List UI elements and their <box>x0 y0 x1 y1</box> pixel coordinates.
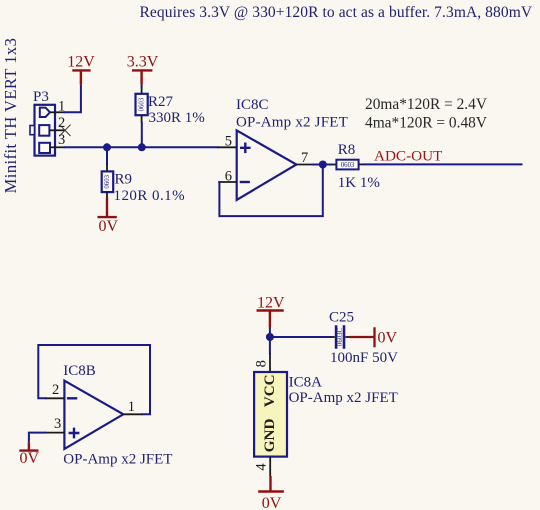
svg-text:Requires 3.3V @ 330+120R to ac: Requires 3.3V @ 330+120R to act as a buf… <box>140 4 533 21</box>
resistor R8 value 1K 1% <box>338 175 380 191</box>
svg-text:ADC-OUT: ADC-OUT <box>374 148 443 165</box>
op-amp IC8C pin 7 lead <box>296 164 313 166</box>
op-amp IC8A pin 8 lead <box>269 353 271 372</box>
power port 0V under R9 <box>98 198 119 236</box>
capacitor C25 designator <box>329 310 354 326</box>
svg-text:0V: 0V <box>262 495 282 510</box>
svg-text:IC8B: IC8B <box>63 363 96 379</box>
junction at C25 tap <box>266 333 274 341</box>
svg-text:OP-Amp x2 JFET: OP-Amp x2 JFET <box>289 390 398 406</box>
wire net to R9 <box>106 147 108 165</box>
op-amp IC8A pin 4 lead <box>269 457 271 476</box>
resistor R9 value 120R 0.1% <box>114 188 186 204</box>
resistor R9 body <box>102 171 114 192</box>
power port 0V below IC8A <box>258 476 284 510</box>
op-amp IC8B plus input mark <box>69 428 80 439</box>
op-amp IC8B pin 1 lead <box>123 413 142 415</box>
svg-text:VCC: VCC <box>261 374 278 407</box>
resistor R9 top lead <box>106 164 108 172</box>
resistor R27 value 330R 1% <box>149 110 205 126</box>
wire 3.3V to R27 <box>141 85 143 88</box>
svg-text:OP-Amp x2 JFET: OP-Amp x2 JFET <box>63 452 172 468</box>
power port 3.3V <box>127 53 159 84</box>
wire R27 to net <box>141 122 143 148</box>
svg-text:0603: 0603 <box>138 97 145 111</box>
svg-text:330R 1%: 330R 1% <box>149 110 205 126</box>
svg-text:0603C: 0603C <box>337 327 344 346</box>
svg-text:2: 2 <box>58 115 65 131</box>
op-amp IC8C pin 6 lead <box>218 181 237 183</box>
wire junction to C25 <box>270 336 331 338</box>
op-amp IC8C type OP-Amp x2 JFET <box>236 114 348 130</box>
pin number 1 IC8B <box>128 399 135 415</box>
pin number 3 IC8B <box>54 416 61 432</box>
svg-text:100nF 50V: 100nF 50V <box>330 350 398 366</box>
wire pin2 stub <box>49 129 64 131</box>
note 4ma*120R = 0.48V <box>365 114 487 131</box>
connector P3 pin 3 contact <box>39 143 50 153</box>
op-amp IC8A type OP-Amp x2 JFET <box>289 390 398 406</box>
pin number 1 <box>58 99 65 115</box>
connector P3 pin 1 lead <box>50 111 65 113</box>
pin number 6 <box>225 168 232 184</box>
op-amp IC8C minus input mark <box>240 181 250 183</box>
svg-text:3.3V: 3.3V <box>127 53 159 70</box>
svg-text:8: 8 <box>253 360 269 367</box>
connector P3 pin 3 lead <box>50 146 65 148</box>
junction at R27 <box>138 143 146 151</box>
svg-text:20ma*120R = 2.4V: 20ma*120R = 2.4V <box>365 96 487 113</box>
svg-text:1K 1%: 1K 1% <box>338 175 380 191</box>
svg-text:5: 5 <box>225 134 232 150</box>
note 20ma*120R = 2.4V <box>365 96 487 113</box>
svg-text:3: 3 <box>54 416 61 432</box>
power port 0V right of C25 <box>350 327 398 347</box>
svg-text:R8: R8 <box>338 142 356 158</box>
wire output to R8 <box>312 164 332 166</box>
wire pin1 to 12V <box>64 85 81 113</box>
svg-text:GND: GND <box>261 418 278 452</box>
svg-text:0V: 0V <box>20 450 40 467</box>
IC8A pin VCC name <box>261 374 278 407</box>
svg-text:120R 0.1%: 120R 0.1% <box>114 188 186 204</box>
svg-text:4: 4 <box>253 463 269 471</box>
svg-text:0603: 0603 <box>341 162 355 169</box>
op-amp IC8B type OP-Amp x2 JFET <box>63 452 172 468</box>
wire feedback loop IC8C <box>219 165 322 217</box>
svg-text:0V: 0V <box>378 330 398 347</box>
connector P3 pin 2 contact <box>39 125 49 136</box>
resistor R8 body <box>336 160 358 170</box>
power port 12V (top) <box>67 53 95 84</box>
svg-text:0V: 0V <box>99 218 119 235</box>
op-amp IC8A designator <box>289 375 323 391</box>
power port 12V (bottom) <box>257 295 286 327</box>
svg-text:1: 1 <box>128 399 135 415</box>
pin number 2 <box>58 115 65 131</box>
op-amp IC8C plus input mark <box>240 143 251 154</box>
net label ADC-OUT <box>374 148 443 165</box>
resistor R8 left lead <box>331 164 337 166</box>
op-amp IC8B pin 3 lead <box>45 432 64 434</box>
svg-text:Minifit TH VERT 1x3: Minifit TH VERT 1x3 <box>1 38 20 194</box>
resistor R8 designator <box>338 142 356 158</box>
IC8A pin GND name <box>261 418 278 452</box>
svg-text:R9: R9 <box>115 172 133 188</box>
wire 12V to IC8A VCC <box>269 327 271 354</box>
junction at R9 <box>103 143 111 151</box>
power port 0V at IC8B <box>19 442 39 467</box>
connector P3 designator <box>33 89 49 105</box>
op-amp IC8B minus input mark <box>67 397 77 399</box>
svg-text:IC8C: IC8C <box>236 97 269 113</box>
pin number 5 <box>225 134 232 150</box>
capacitor C25 value 100nF 50V <box>330 350 398 366</box>
capacitor C25 right lead <box>345 336 350 338</box>
pin number 2 IC8B <box>52 382 59 398</box>
svg-text:R27: R27 <box>148 94 174 110</box>
op-amp IC8C triangle <box>237 130 297 200</box>
svg-text:IC8A: IC8A <box>289 375 323 391</box>
wire pin3 to ground IC8B <box>29 433 46 443</box>
op-amp U=IC8C designator <box>236 97 269 113</box>
pin number 4 (rotated) <box>253 463 269 471</box>
resistor R27 top lead <box>141 87 143 94</box>
pin number 3 <box>58 132 65 148</box>
wire pin3 to op-amp input (net) <box>64 146 219 148</box>
svg-text:2: 2 <box>52 382 59 398</box>
connector P3 pin 1 contact (pentagon) <box>40 108 50 117</box>
svg-text:0603: 0603 <box>104 174 111 188</box>
pin number 8 (rotated) <box>253 360 269 367</box>
wire R8 to ADC-OUT <box>363 163 523 165</box>
resistor R8 right lead <box>359 163 364 165</box>
op-amp IC8C pin 5 lead <box>218 146 237 148</box>
svg-text:12V: 12V <box>67 53 95 70</box>
connector P3 body <box>30 105 55 156</box>
svg-text:OP-Amp x2 JFET: OP-Amp x2 JFET <box>236 114 348 130</box>
title note <box>140 4 533 21</box>
op-amp IC8B pin 2 lead <box>45 397 64 399</box>
wire feedback loop IC8B <box>38 345 150 414</box>
capacitor C25 plates <box>336 325 344 349</box>
resistor R9 designator <box>115 172 133 188</box>
resistor R27 designator <box>148 94 174 110</box>
resistor R27 body <box>136 94 148 115</box>
svg-text:4ma*120R = 0.48V: 4ma*120R = 0.48V <box>365 114 487 131</box>
svg-text:C25: C25 <box>329 310 354 326</box>
no-connect cross on pin 2 <box>60 125 71 136</box>
capacitor C25 left lead <box>330 336 335 338</box>
resistor R27 bottom lead <box>141 115 143 123</box>
svg-text:P3: P3 <box>33 89 49 105</box>
op-amp IC8B designator <box>63 363 96 379</box>
resistor R9 bottom lead <box>106 192 108 198</box>
junction at feedback tap <box>319 161 327 169</box>
op-amp IC8B triangle <box>64 381 123 449</box>
svg-text:12V: 12V <box>257 295 285 312</box>
op-amp IC8A power part body (VCC/GND) <box>254 372 287 457</box>
connector P3 footprint note "Minifit TH VERT 1x3" <box>1 38 20 194</box>
pin number 7 <box>301 150 308 166</box>
